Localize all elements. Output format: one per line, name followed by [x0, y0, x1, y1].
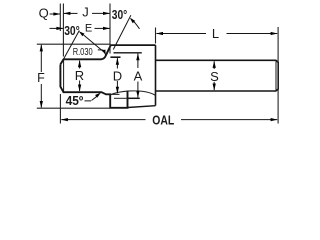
svg-text:J: J	[82, 5, 89, 20]
svg-text:S: S	[210, 69, 219, 84]
svg-text:R: R	[75, 68, 84, 83]
svg-text:30°: 30°	[64, 23, 80, 38]
svg-text:A: A	[134, 68, 143, 83]
svg-text:R.030: R.030	[73, 47, 93, 58]
svg-text:L: L	[212, 26, 219, 41]
svg-text:D: D	[113, 68, 122, 83]
svg-text:OAL: OAL	[152, 113, 174, 127]
svg-text:Q: Q	[39, 6, 49, 21]
svg-text:30°: 30°	[112, 7, 128, 22]
svg-text:E: E	[85, 23, 92, 35]
svg-text:F: F	[37, 71, 45, 85]
svg-text:45º: 45º	[66, 93, 84, 108]
